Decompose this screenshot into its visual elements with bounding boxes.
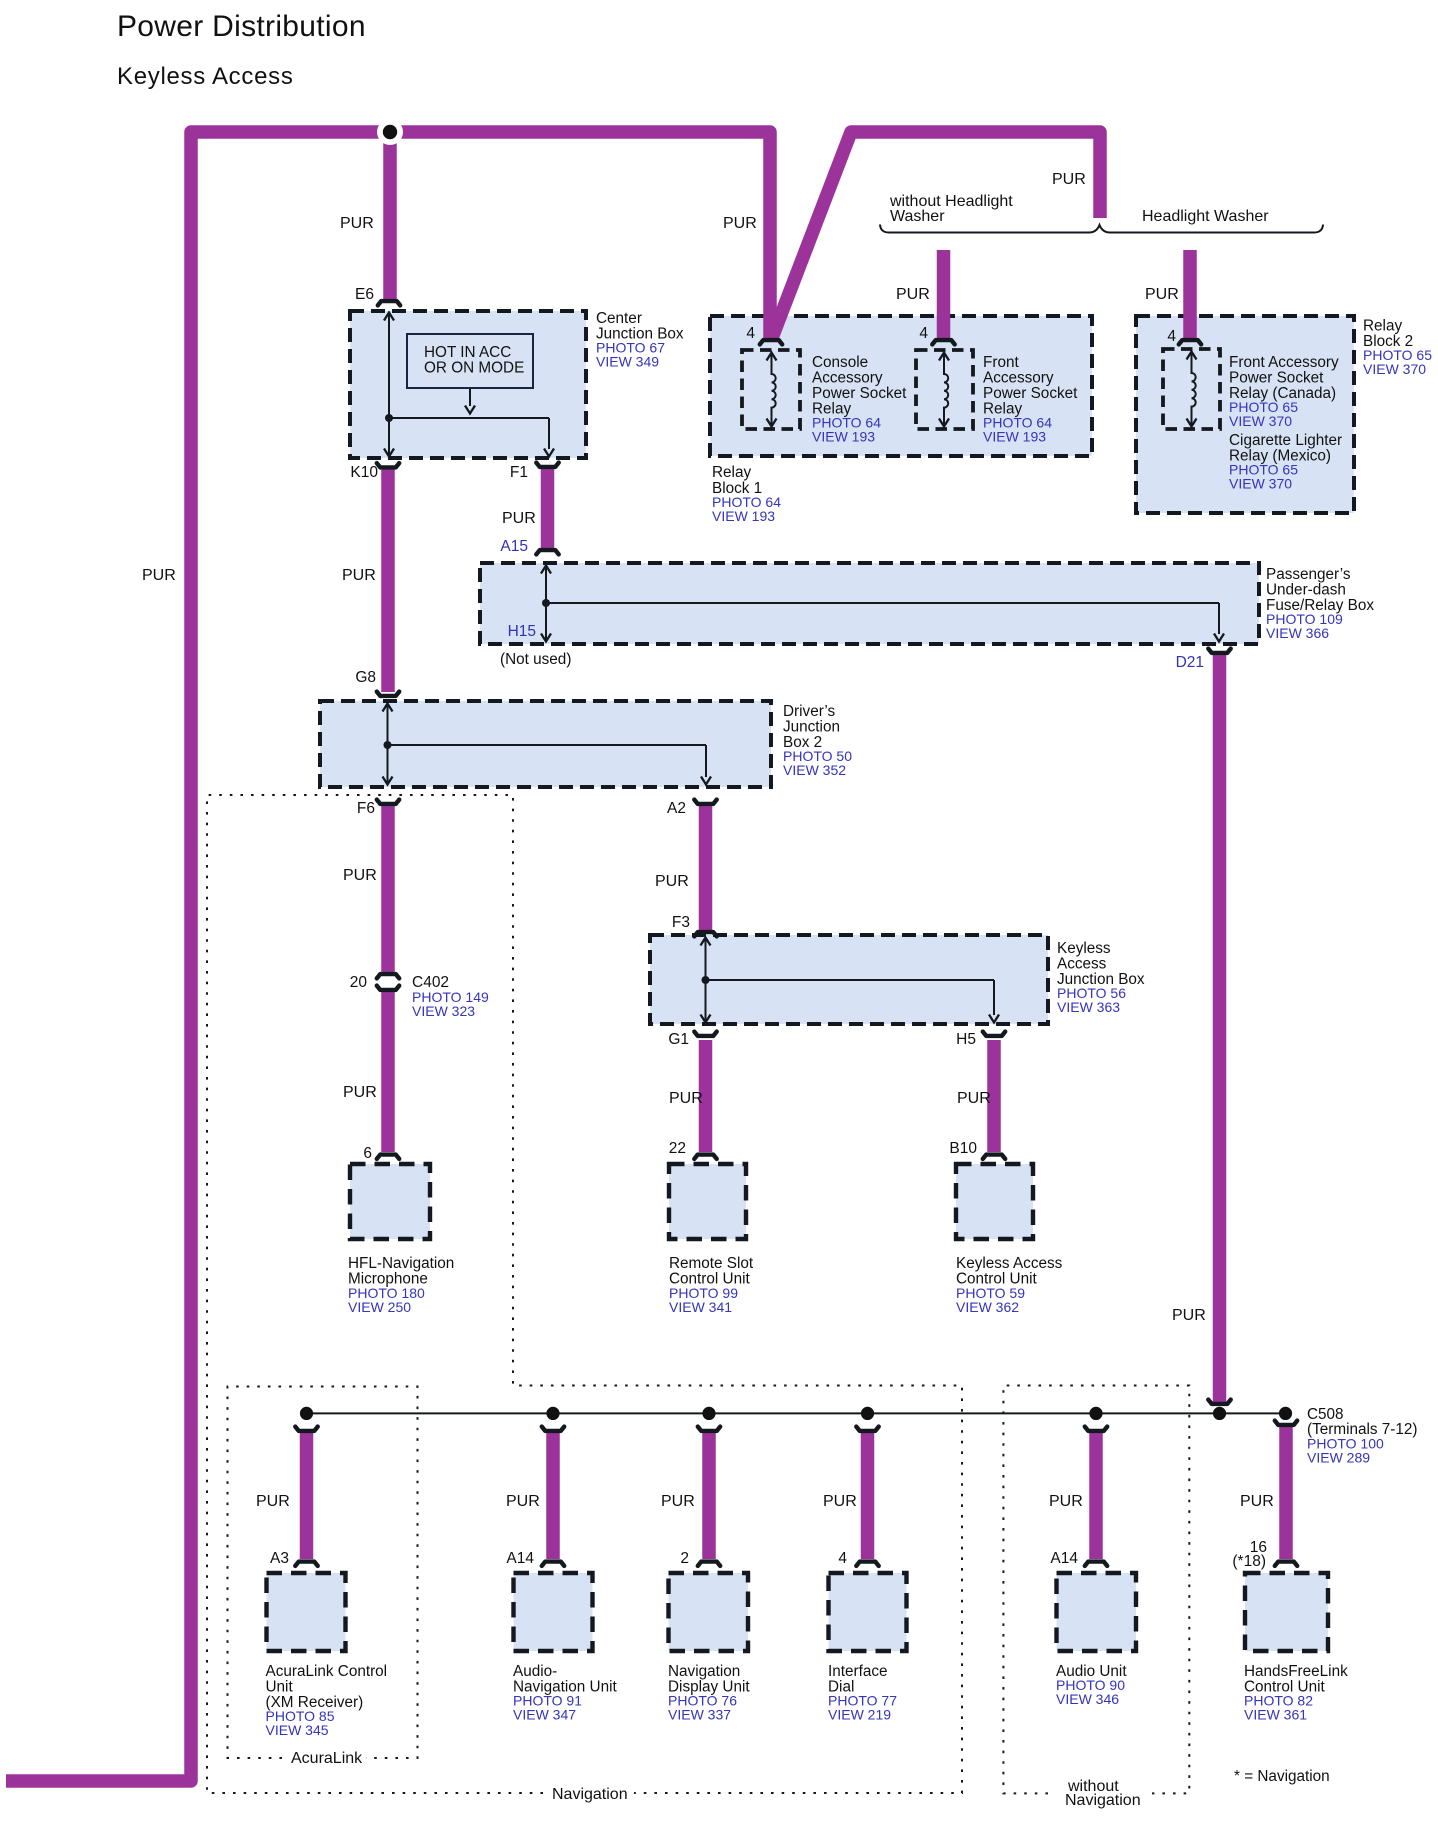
wire PUR bus to audio unit A14 bbox=[1089, 1432, 1103, 1559]
svg-text:Power Distribution: Power Distribution bbox=[117, 10, 366, 43]
svg-text:Front Accessory: Front Accessory bbox=[1229, 354, 1339, 371]
node bus nav display bbox=[702, 1407, 715, 1420]
node bus interface dial bbox=[861, 1407, 874, 1420]
acuralink control unit box bbox=[267, 1573, 346, 1651]
label driver's junction box 2 bbox=[783, 703, 852, 778]
svg-text:22: 22 bbox=[669, 1140, 686, 1157]
node splice on main feed bbox=[377, 119, 403, 145]
svg-text:VIEW 193: VIEW 193 bbox=[812, 429, 875, 445]
svg-text:Accessory: Accessory bbox=[983, 370, 1054, 387]
svg-text:PUR: PUR bbox=[343, 867, 377, 884]
terminal relay block1 pin4 console bbox=[760, 340, 782, 344]
wire PUR F1 to A15 bbox=[541, 468, 555, 548]
svg-text:VIEW 337: VIEW 337 bbox=[668, 1707, 731, 1723]
svg-text:PUR: PUR bbox=[1145, 286, 1179, 303]
terminal D21 wire into bus bbox=[1208, 1400, 1230, 1404]
svg-text:Passenger’s: Passenger’s bbox=[1266, 566, 1351, 583]
svg-text:VIEW 366: VIEW 366 bbox=[1266, 625, 1329, 641]
terminal C508 drop bbox=[1275, 1421, 1297, 1425]
svg-text:Driver’s: Driver’s bbox=[783, 703, 835, 720]
svg-text:A2: A2 bbox=[667, 800, 686, 817]
wire PUR G1 to remote slot pin 22 bbox=[699, 1040, 713, 1152]
bus line C508 bbox=[306, 1412, 1286, 1414]
svg-text:A15: A15 bbox=[500, 538, 528, 555]
terminal F1 bbox=[536, 463, 558, 467]
svg-text:VIEW 352: VIEW 352 bbox=[783, 762, 846, 778]
label remote slot control unit bbox=[669, 1255, 754, 1315]
wire PUR C508 to handsfreelink 16 bbox=[1279, 1426, 1293, 1559]
relay block 2 box bbox=[1136, 316, 1354, 513]
center junction box internals bbox=[384, 313, 554, 457]
hot-in-acc label box bbox=[407, 334, 533, 388]
interface dial box bbox=[829, 1573, 907, 1651]
svg-text:PUR: PUR bbox=[256, 1493, 290, 1510]
wire PUR bus to interface dial 4 bbox=[861, 1432, 875, 1559]
svg-text:VIEW 345: VIEW 345 bbox=[266, 1722, 329, 1738]
label keyless access control unit bbox=[956, 1255, 1063, 1315]
dotted group Navigation (L-shape) bbox=[207, 795, 962, 1793]
terminal audio-nav A14 bbox=[542, 1562, 564, 1566]
brace without/with headlight washer bbox=[880, 225, 1323, 233]
svg-text:PUR: PUR bbox=[502, 510, 536, 527]
svg-text:PUR: PUR bbox=[896, 286, 930, 303]
label relay block 2 bbox=[1363, 318, 1432, 378]
svg-text:HFL-Navigation: HFL-Navigation bbox=[348, 1255, 454, 1272]
terminal nav display 2 bbox=[698, 1562, 720, 1566]
node bus A3 bbox=[300, 1407, 313, 1420]
keyless access junction box bbox=[650, 935, 1048, 1024]
terminal acuralink A3 bbox=[295, 1562, 317, 1566]
wire PUR bus to navigation display 2 bbox=[702, 1432, 716, 1559]
svg-text:VIEW 370: VIEW 370 bbox=[1229, 476, 1292, 492]
svg-text:Keyless: Keyless bbox=[1057, 940, 1111, 957]
svg-text:VIEW 370: VIEW 370 bbox=[1363, 361, 1426, 377]
driver's junction box 2 bbox=[320, 701, 771, 787]
svg-text:PUR: PUR bbox=[661, 1493, 695, 1510]
svg-text:Relay: Relay bbox=[712, 464, 751, 481]
terminal G1 bbox=[694, 1032, 716, 1036]
svg-text:Audio-: Audio- bbox=[513, 1663, 557, 1680]
terminal bus drop A3 bbox=[295, 1427, 317, 1431]
svg-text:PUR: PUR bbox=[506, 1493, 540, 1510]
wire PUR without-headlight-washer branch bbox=[937, 250, 951, 338]
handsfreelink control unit box bbox=[1245, 1573, 1328, 1651]
wire PUR junction to E6 bbox=[383, 132, 397, 299]
passenger's under-dash fuse/relay box bbox=[480, 563, 1259, 644]
navigation display unit box bbox=[669, 1573, 749, 1651]
wire PUR K10 to G8 bbox=[381, 469, 395, 692]
svg-text:OR ON MODE: OR ON MODE bbox=[424, 360, 524, 377]
label handsfreelink control unit bbox=[1244, 1663, 1348, 1723]
svg-text:Accessory: Accessory bbox=[812, 370, 883, 387]
wire PUR H5 to keyless access pin B10 bbox=[987, 1040, 1001, 1152]
node bus audio unit bbox=[1089, 1407, 1102, 1420]
svg-text:VIEW 362: VIEW 362 bbox=[956, 1299, 1019, 1315]
wire PUR diagonal branch to relay blocks bbox=[772, 132, 1100, 338]
svg-text:Remote Slot: Remote Slot bbox=[669, 1255, 754, 1272]
svg-text:D21: D21 bbox=[1176, 654, 1204, 671]
svg-text:F6: F6 bbox=[357, 800, 375, 817]
svg-text:Headlight Washer: Headlight Washer bbox=[1142, 208, 1269, 225]
HFL-navigation microphone box bbox=[350, 1164, 430, 1239]
terminal audio unit A14 bbox=[1085, 1562, 1107, 1566]
node bus A14 audio-nav bbox=[546, 1407, 559, 1420]
terminal bus drop A14 bbox=[542, 1427, 564, 1431]
dotted group without Navigation bbox=[1003, 1386, 1189, 1794]
svg-text:PUR: PUR bbox=[1240, 1493, 1274, 1510]
svg-text:4: 4 bbox=[919, 325, 928, 342]
svg-text:F3: F3 bbox=[672, 914, 690, 931]
passenger box internals bbox=[541, 566, 1224, 642]
svg-text:AcuraLink: AcuraLink bbox=[291, 1750, 363, 1767]
svg-text:PUR: PUR bbox=[1052, 171, 1086, 188]
svg-text:G1: G1 bbox=[668, 1031, 689, 1048]
svg-text:Junction: Junction bbox=[783, 719, 840, 736]
svg-text:HOT IN ACC: HOT IN ACC bbox=[424, 344, 511, 361]
terminal bus drop 2 bbox=[698, 1427, 720, 1431]
svg-text:Unit: Unit bbox=[266, 1679, 294, 1696]
svg-text:AcuraLink Control: AcuraLink Control bbox=[266, 1663, 388, 1680]
svg-text:2: 2 bbox=[680, 1550, 689, 1567]
svg-text:VIEW 363: VIEW 363 bbox=[1057, 999, 1120, 1015]
svg-text:VIEW 323: VIEW 323 bbox=[412, 1003, 475, 1019]
svg-text:VIEW 370: VIEW 370 bbox=[1229, 413, 1292, 429]
svg-text:VIEW 219: VIEW 219 bbox=[828, 1707, 891, 1723]
svg-text:PUR: PUR bbox=[823, 1493, 857, 1510]
svg-text:B10: B10 bbox=[949, 1140, 977, 1157]
terminal A15 bbox=[536, 550, 558, 554]
connector C402 lower bbox=[377, 986, 399, 990]
label passenger's under-dash fuse/relay box bbox=[1266, 566, 1374, 641]
svg-text:H15: H15 bbox=[508, 623, 536, 640]
audio-navigation unit box bbox=[514, 1573, 593, 1651]
svg-text:Access: Access bbox=[1057, 956, 1107, 973]
terminal handsfreelink 16 bbox=[1275, 1562, 1297, 1566]
svg-text:4: 4 bbox=[838, 1550, 847, 1567]
svg-text:Console: Console bbox=[812, 354, 868, 371]
wire PUR headlight-washer branch bbox=[1183, 250, 1197, 338]
terminal D21 bbox=[1208, 649, 1230, 653]
svg-text:VIEW 193: VIEW 193 bbox=[712, 508, 775, 524]
wire PUR C402 to HFL microphone pin 6 bbox=[381, 989, 395, 1152]
terminal H5 bbox=[983, 1032, 1005, 1036]
label acuralink control unit bbox=[266, 1663, 388, 1738]
svg-text:VIEW 341: VIEW 341 bbox=[669, 1299, 732, 1315]
label front accessory power socket relay canada bbox=[1229, 354, 1339, 429]
svg-text:A14: A14 bbox=[506, 1550, 534, 1567]
label audio unit bbox=[1056, 1663, 1127, 1707]
svg-text:Navigation: Navigation bbox=[668, 1663, 740, 1680]
remote slot control unit box bbox=[669, 1164, 746, 1239]
terminal interface dial 4 bbox=[856, 1562, 878, 1566]
wire PUR D21 down to bus bbox=[1213, 655, 1227, 1403]
relay sub-box console accessory power socket relay bbox=[742, 350, 800, 429]
wire PUR F6 to C402 bbox=[381, 806, 395, 972]
svg-text:Power Socket: Power Socket bbox=[983, 385, 1078, 402]
dotted group AcuraLink bbox=[228, 1387, 418, 1759]
svg-text:PUR: PUR bbox=[655, 873, 689, 890]
svg-text:E6: E6 bbox=[355, 286, 374, 303]
audio unit box bbox=[1057, 1573, 1137, 1651]
driver's junction box 2 internals bbox=[383, 704, 712, 785]
wire PUR main feed left loop bbox=[6, 132, 770, 1781]
relay block 1 box bbox=[710, 316, 1092, 456]
svg-text:Navigation: Navigation bbox=[552, 1786, 628, 1803]
keyless access junction box internals bbox=[701, 938, 1000, 1023]
svg-text:A3: A3 bbox=[270, 1550, 289, 1567]
svg-text:A14: A14 bbox=[1050, 1550, 1078, 1567]
keyless access control unit box bbox=[956, 1164, 1033, 1239]
svg-text:6: 6 bbox=[363, 1145, 372, 1162]
svg-text:Interface: Interface bbox=[828, 1663, 888, 1680]
label center junction box bbox=[596, 310, 684, 370]
terminal relay block1 pin4 front bbox=[932, 340, 954, 344]
terminal keyless access pinB10 bbox=[983, 1155, 1005, 1159]
label relay block 1 bbox=[712, 464, 781, 524]
svg-text:PUR: PUR bbox=[142, 567, 176, 584]
svg-text:Keyless Access: Keyless Access bbox=[956, 1255, 1063, 1272]
relay coil front accessory bbox=[939, 353, 949, 430]
svg-text:* = Navigation: * = Navigation bbox=[1234, 1768, 1330, 1785]
svg-text:VIEW 193: VIEW 193 bbox=[983, 429, 1046, 445]
svg-text:PUR: PUR bbox=[957, 1090, 991, 1107]
svg-text:VIEW 349: VIEW 349 bbox=[596, 354, 659, 370]
label console accessory power socket relay bbox=[812, 354, 907, 445]
svg-text:VIEW 346: VIEW 346 bbox=[1056, 1691, 1119, 1707]
label interface dial bbox=[828, 1663, 897, 1723]
svg-text:VIEW 361: VIEW 361 bbox=[1244, 1707, 1307, 1723]
svg-text:VIEW 289: VIEW 289 bbox=[1307, 1450, 1370, 1466]
svg-text:Navigation: Navigation bbox=[1065, 1792, 1141, 1809]
svg-text:Cigarette Lighter: Cigarette Lighter bbox=[1229, 432, 1342, 449]
wire PUR bus to acuralink A3 bbox=[300, 1432, 314, 1559]
terminal E6 bbox=[378, 301, 400, 305]
relay sub-box front accessory power socket relay canada bbox=[1163, 349, 1220, 429]
svg-text:Washer: Washer bbox=[890, 208, 945, 225]
relay sub-box front accessory power socket relay bbox=[916, 350, 973, 429]
svg-text:PUR: PUR bbox=[343, 1084, 377, 1101]
svg-text:(Not used): (Not used) bbox=[500, 651, 571, 668]
svg-text:F1: F1 bbox=[510, 464, 528, 481]
svg-text:Center: Center bbox=[596, 310, 642, 327]
wire PUR bus to audio-navigation A14 bbox=[546, 1432, 560, 1559]
center junction box bbox=[350, 311, 586, 458]
terminal relay block2 pin4 bbox=[1179, 340, 1201, 344]
svg-text:H5: H5 bbox=[956, 1031, 976, 1048]
label navigation display unit bbox=[668, 1663, 750, 1723]
svg-text:HandsFreeLink: HandsFreeLink bbox=[1244, 1663, 1348, 1680]
node bus D21 feed bbox=[1213, 1407, 1226, 1420]
svg-text:4: 4 bbox=[1167, 328, 1176, 345]
svg-text:PUR: PUR bbox=[1172, 1307, 1206, 1324]
svg-text:K10: K10 bbox=[350, 464, 378, 481]
terminal A2 bbox=[694, 800, 716, 804]
relay coil block 2 bbox=[1187, 352, 1197, 429]
label keyless access junction box bbox=[1057, 940, 1145, 1015]
terminal HFL mic pin6 bbox=[377, 1155, 399, 1159]
svg-text:Power Socket: Power Socket bbox=[812, 385, 907, 402]
svg-text:PUR: PUR bbox=[1049, 1493, 1083, 1510]
svg-text:Keyless Access: Keyless Access bbox=[117, 63, 294, 90]
svg-text:G8: G8 bbox=[355, 669, 376, 686]
svg-text:(*18): (*18) bbox=[1232, 1553, 1266, 1570]
svg-text:20: 20 bbox=[350, 974, 368, 991]
connector C402 upper bbox=[377, 974, 399, 978]
terminal bus drop 4 bbox=[856, 1427, 878, 1431]
svg-text:Front: Front bbox=[983, 354, 1019, 371]
terminal F6 bbox=[377, 800, 399, 804]
terminal bus drop A14 audio bbox=[1085, 1427, 1107, 1431]
terminal K10 bbox=[377, 463, 399, 467]
svg-text:4: 4 bbox=[746, 325, 755, 342]
svg-text:Power Socket: Power Socket bbox=[1229, 370, 1324, 387]
label front accessory power socket relay bbox=[983, 354, 1078, 445]
svg-text:Under-dash: Under-dash bbox=[1266, 582, 1346, 599]
relay coil console accessory bbox=[767, 353, 777, 430]
label audio-navigation unit bbox=[513, 1663, 617, 1723]
node bus C508 end bbox=[1279, 1407, 1292, 1420]
svg-text:PUR: PUR bbox=[342, 567, 376, 584]
svg-text:PUR: PUR bbox=[669, 1090, 703, 1107]
terminal F3 bbox=[694, 932, 716, 936]
wire PUR A2 to F3 bbox=[699, 806, 713, 930]
connector C508 label bbox=[1307, 1406, 1418, 1466]
svg-text:VIEW 250: VIEW 250 bbox=[348, 1299, 411, 1315]
svg-text:VIEW 347: VIEW 347 bbox=[513, 1707, 576, 1723]
label cigarette lighter relay mexico bbox=[1229, 432, 1342, 492]
label HFL-navigation microphone bbox=[348, 1255, 454, 1315]
terminal remote slot pin22 bbox=[694, 1155, 716, 1159]
svg-text:PUR: PUR bbox=[340, 215, 374, 232]
svg-text:Relay: Relay bbox=[1363, 318, 1402, 335]
svg-text:PUR: PUR bbox=[723, 215, 757, 232]
terminal G8 bbox=[377, 692, 399, 696]
